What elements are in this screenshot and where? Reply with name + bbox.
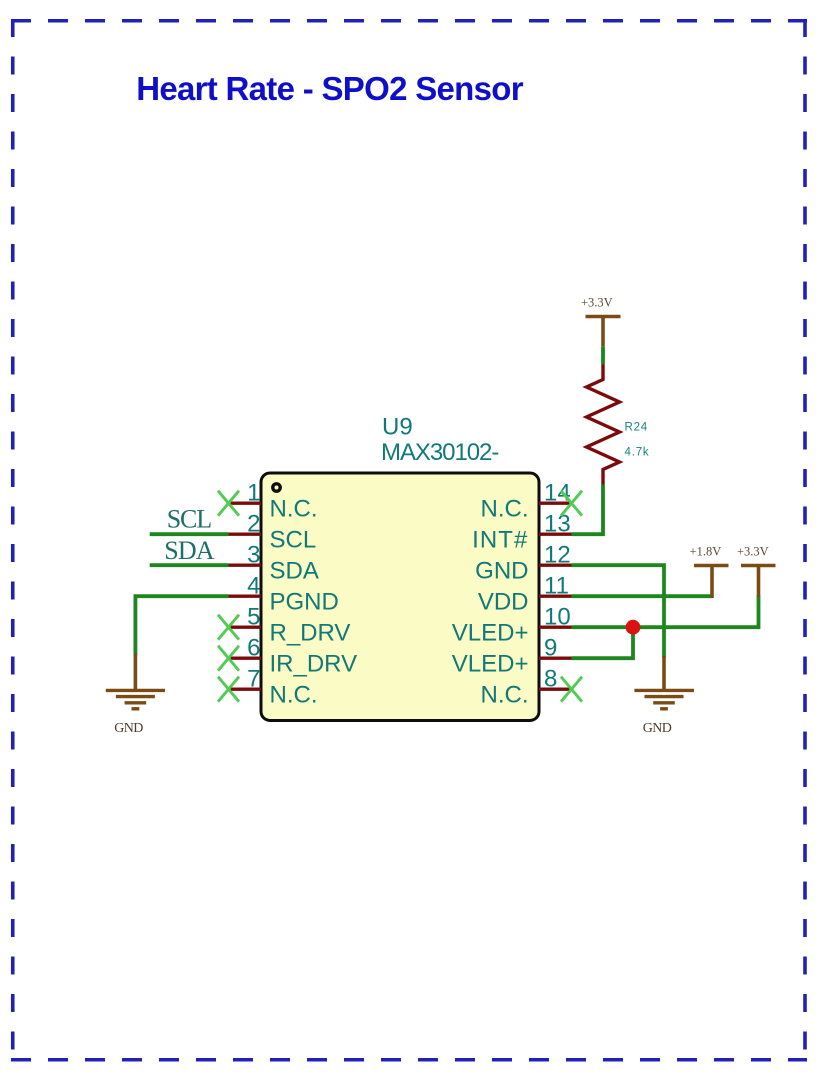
- svg-text:U9: U9: [382, 414, 413, 441]
- svg-text:VLED+: VLED+: [452, 651, 529, 678]
- svg-text:2: 2: [247, 510, 260, 537]
- svg-text:SDA: SDA: [164, 536, 214, 565]
- svg-text:SCL: SCL: [167, 505, 211, 534]
- svg-text:R_DRV: R_DRV: [270, 620, 351, 647]
- pin 12 stub: [539, 564, 572, 567]
- right pin numbers: [544, 479, 571, 692]
- no-connect X pin 6: [218, 646, 239, 671]
- pin 2 stub: [229, 533, 262, 536]
- wire VLED+ pin10 to +3.3V: [572, 596, 759, 628]
- wire SCL: [150, 532, 229, 536]
- svg-text:N.C.: N.C.: [270, 682, 318, 709]
- pin 11 stub: [539, 595, 572, 598]
- svg-text:9: 9: [544, 634, 557, 661]
- svg-text:8: 8: [544, 665, 557, 692]
- wire VLED+ pin9: [572, 627, 634, 658]
- svg-text:4: 4: [247, 572, 260, 599]
- pin 1 stub: [229, 502, 262, 505]
- wire SDA: [150, 563, 229, 567]
- wire INT# to R24: [572, 485, 604, 535]
- power +1.8V: [694, 566, 729, 599]
- svg-text:+3.3V: +3.3V: [737, 545, 769, 559]
- svg-text:GND: GND: [643, 721, 672, 736]
- power +3.3V right: [741, 566, 776, 598]
- no-connect X pin 7: [218, 677, 239, 702]
- no-connect X pin 1: [218, 491, 239, 516]
- svg-text:VDD: VDD: [478, 589, 529, 616]
- pin 13 stub: [539, 533, 572, 536]
- pin 8 stub: [539, 688, 572, 691]
- no-connect X pin 8: [561, 677, 582, 702]
- pin 4 stub: [229, 595, 262, 598]
- left pin numbers: [247, 479, 260, 692]
- svg-text:IR_DRV: IR_DRV: [270, 651, 358, 678]
- svg-text:4.7k: 4.7k: [625, 447, 650, 459]
- svg-text:Heart Rate - SPO2 Sensor: Heart Rate - SPO2 Sensor: [136, 70, 524, 107]
- right pin stubs: [539, 503, 572, 689]
- no-connect X pin 14: [561, 491, 582, 516]
- svg-text:INT#: INT#: [472, 527, 528, 554]
- svg-text:SDA: SDA: [270, 558, 319, 585]
- ground GND right: [634, 656, 694, 709]
- svg-text:R24: R24: [625, 422, 649, 434]
- svg-text:VLED+: VLED+: [452, 620, 529, 647]
- right pin names: [452, 496, 529, 709]
- junction node VLED+: [626, 620, 641, 635]
- pin 10 stub: [539, 626, 572, 629]
- left pin stubs: [229, 503, 262, 689]
- power +3.3V above R24: [586, 317, 621, 347]
- wire R24 top: [601, 346, 605, 364]
- pin 1 indicator: [273, 484, 280, 491]
- svg-text:1: 1: [247, 479, 260, 506]
- no-connect X pin 5: [218, 615, 239, 640]
- IC U9 MAX30102 body: [261, 414, 539, 721]
- pin 5 stub: [229, 626, 262, 629]
- svg-text:GND: GND: [475, 558, 528, 585]
- svg-text:6: 6: [247, 634, 260, 661]
- svg-text:MAX30102-: MAX30102-: [381, 439, 498, 466]
- pin 9 stub: [539, 657, 572, 660]
- svg-text:SCL: SCL: [270, 527, 317, 554]
- pin 7 stub: [229, 688, 262, 691]
- svg-text:14: 14: [544, 479, 571, 506]
- svg-text:N.C.: N.C.: [270, 496, 318, 523]
- svg-text:N.C.: N.C.: [481, 496, 529, 523]
- svg-text:+1.8V: +1.8V: [690, 545, 722, 559]
- svg-text:+3.3V: +3.3V: [581, 296, 613, 310]
- svg-text:3: 3: [247, 541, 260, 568]
- resistor R24: [587, 365, 620, 485]
- pin 3 stub: [229, 564, 262, 567]
- svg-text:13: 13: [544, 510, 571, 537]
- svg-text:7: 7: [247, 665, 260, 692]
- svg-text:GND: GND: [114, 721, 143, 736]
- svg-text:11: 11: [544, 572, 569, 599]
- wire PGND to left GND: [135, 596, 228, 655]
- pin 6 stub: [229, 657, 262, 660]
- svg-text:5: 5: [247, 603, 260, 630]
- wire VDD to +1.8V: [572, 594, 713, 598]
- wire GND net right: [572, 565, 665, 658]
- pin 14 stub: [539, 502, 572, 505]
- svg-text:N.C.: N.C.: [481, 682, 529, 709]
- svg-text:12: 12: [544, 541, 571, 568]
- left pin names: [270, 496, 358, 709]
- svg-text:10: 10: [544, 603, 571, 630]
- svg-text:PGND: PGND: [270, 589, 339, 616]
- ground GND left: [106, 654, 165, 709]
